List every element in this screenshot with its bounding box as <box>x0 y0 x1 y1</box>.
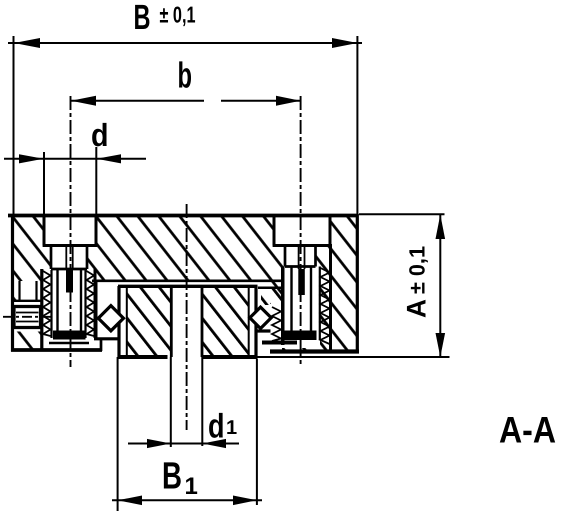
svg-text:1: 1 <box>226 417 237 439</box>
svg-text:b: b <box>178 55 193 96</box>
svg-text:d: d <box>91 117 109 153</box>
svg-text:± 0,1: ± 0,1 <box>160 2 196 28</box>
svg-text:B: B <box>162 456 182 498</box>
svg-text:d: d <box>208 408 225 446</box>
svg-text:1: 1 <box>185 473 198 500</box>
svg-text:± 0,1: ± 0,1 <box>405 246 430 294</box>
svg-text:B: B <box>134 0 151 37</box>
svg-text:A-A: A-A <box>499 410 556 451</box>
svg-text:A: A <box>402 299 432 318</box>
